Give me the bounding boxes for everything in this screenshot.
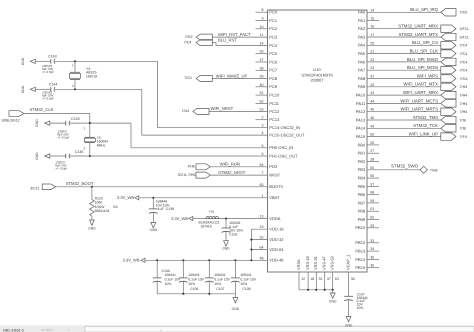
svg-text:7/H4: 7/H4: [460, 102, 468, 106]
svg-text:C109: C109: [162, 269, 170, 273]
svg-text:FB1: FB1: [209, 210, 215, 214]
svg-text:61: 61: [370, 207, 374, 211]
svg-text:PB10: PB10: [355, 225, 366, 230]
svg-text:63: 63: [335, 277, 339, 281]
svg-text:3: 3: [262, 124, 264, 128]
svg-text:43: 43: [370, 91, 374, 95]
svg-text:VSS-47: VSS-47: [322, 255, 327, 270]
svg-text:3.3V_WB: 3.3V_WB: [123, 258, 140, 263]
svg-text:PD2: PD2: [269, 164, 278, 169]
svg-text:VBAT: VBAT: [269, 195, 280, 200]
svg-text:24: 24: [260, 41, 264, 45]
svg-text:17: 17: [370, 33, 374, 37]
svg-text:64: 64: [260, 246, 264, 250]
svg-text:7/C4: 7/C4: [460, 52, 468, 56]
svg-text:8: 8: [262, 8, 264, 12]
svg-text:PB6: PB6: [358, 192, 366, 197]
svg-text:3.3V_WB: 3.3V_WB: [117, 195, 134, 200]
svg-text:10%: 10%: [165, 282, 172, 286]
svg-text:PA6: PA6: [358, 59, 366, 64]
svg-text:7/G2: 7/G2: [185, 35, 193, 39]
svg-text:C106: C106: [190, 287, 198, 291]
svg-text:WIFI_WAKE_UP: WIFI_WAKE_UP: [216, 73, 248, 78]
svg-text:7/H4: 7/H4: [460, 110, 468, 114]
svg-text:WIFI_LINK_UP: WIFI_LINK_UP: [409, 132, 439, 137]
svg-text:+/- 0.5pF: +/- 0.5pF: [57, 136, 69, 140]
svg-text:7/G4: 7/G4: [460, 77, 468, 81]
svg-text:7/H4: 7/H4: [460, 85, 468, 89]
svg-text:C144: C144: [49, 83, 58, 87]
svg-text:BLU_SPI_MISO: BLU_SPI_MISO: [407, 57, 439, 62]
svg-text:23: 23: [370, 66, 374, 70]
svg-text:11: 11: [260, 33, 264, 37]
svg-text:PC2: PC2: [269, 26, 278, 31]
svg-text:3/F11: 3/F11: [460, 27, 469, 31]
svg-text:7/I8: 7/I8: [460, 127, 466, 131]
svg-text:PC3: PC3: [269, 35, 278, 40]
svg-text:PC5: PC5: [269, 51, 278, 56]
svg-text:3/C11,7/H6: 3/C11,7/H6: [178, 173, 196, 177]
svg-text:PB2: PB2: [358, 159, 366, 164]
svg-text:31: 31: [319, 277, 323, 281]
svg-text:VDD-48: VDD-48: [269, 258, 284, 263]
svg-text:10%: 10%: [188, 282, 195, 286]
svg-text:PB3: PB3: [358, 167, 366, 172]
svg-text:U10: U10: [313, 67, 321, 72]
svg-text:C108: C108: [242, 287, 250, 291]
svg-text:59: 59: [370, 199, 374, 203]
svg-text:168441: 168441: [214, 273, 225, 277]
svg-text:GND: GND: [88, 226, 96, 230]
svg-text:PC11: PC11: [269, 101, 279, 106]
svg-text:HB1.3-B01.0: HB1.3-B01.0: [3, 328, 24, 332]
svg-text:1: 1: [83, 126, 85, 130]
svg-text:3/B8,3/G12: 3/B8,3/G12: [2, 118, 20, 122]
svg-text:38: 38: [260, 66, 264, 70]
svg-text:WIFI_RST_FACT: WIFI_RST_FACT: [218, 32, 251, 37]
svg-text:10%: 10%: [357, 306, 364, 310]
svg-text:13: 13: [260, 215, 264, 219]
svg-text:PC4: PC4: [269, 43, 278, 48]
svg-text:3.3V_WB: 3.3V_WB: [171, 216, 188, 221]
svg-text:68691104: 68691104: [95, 209, 110, 213]
svg-text:VSS-63: VSS-63: [330, 255, 335, 270]
svg-text:PC15-OSC32_OUT: PC15-OSC32_OUT: [269, 133, 305, 138]
svg-text:7/G1: 7/G1: [184, 76, 192, 80]
svg-text:7/C4: 7/C4: [184, 40, 192, 44]
svg-text:GND: GND: [35, 152, 39, 160]
svg-text:PA9: PA9: [358, 84, 366, 89]
svg-text:42: 42: [370, 83, 374, 87]
svg-text:8MHz: 8MHz: [97, 143, 106, 147]
svg-text:GND: GND: [150, 228, 158, 232]
svg-text:28: 28: [370, 158, 374, 162]
svg-text:1: 1: [262, 194, 264, 198]
svg-text:33: 33: [370, 239, 374, 243]
svg-text:rev 0.2 a: rev 0.2 a: [41, 328, 53, 332]
svg-text:PA3: PA3: [358, 34, 366, 39]
svg-text:7/C6: 7/C6: [460, 11, 468, 15]
svg-text:WIFI_UART_MCTS: WIFI_UART_MCTS: [400, 98, 438, 103]
svg-text:7/C4: 7/C4: [460, 69, 468, 73]
svg-text:44: 44: [370, 99, 374, 103]
svg-text:PC8: PC8: [269, 76, 278, 81]
svg-text:C143: C143: [48, 55, 57, 59]
svg-text:7/H4: 7/H4: [460, 94, 468, 98]
svg-text:VSS-18: VSS-18: [305, 255, 310, 270]
svg-text:27: 27: [370, 149, 374, 153]
svg-text:VSS-31: VSS-31: [313, 255, 318, 270]
svg-text:187418: 187418: [200, 224, 211, 228]
svg-text:45: 45: [370, 108, 374, 112]
svg-text:PH0-OSC_IN: PH0-OSC_IN: [269, 145, 293, 150]
svg-text:0.1uF 10V: 0.1uF 10V: [165, 278, 181, 282]
svg-text:9: 9: [262, 17, 264, 21]
svg-text:39: 39: [260, 75, 264, 79]
svg-text:WIFI_UART_MTX: WIFI_UART_MTX: [403, 82, 438, 87]
svg-text:STM32_UART_MTX: STM32_UART_MTX: [399, 32, 438, 37]
svg-text:VSSA: VSSA: [296, 259, 301, 270]
svg-text:PC9: PC9: [269, 84, 278, 89]
svg-text:PA12: PA12: [356, 109, 366, 114]
svg-text:+/- 0.5pF: +/- 0.5pF: [55, 166, 67, 170]
svg-text:34: 34: [370, 247, 374, 251]
svg-text:GND: GND: [345, 324, 353, 328]
svg-text:C138: C138: [166, 207, 174, 211]
svg-text:VDD-32: VDD-32: [269, 237, 284, 242]
svg-text:PB5: PB5: [358, 184, 366, 189]
svg-text:47: 47: [327, 277, 331, 281]
svg-text:41: 41: [370, 75, 374, 79]
svg-text:WIFI_NRST: WIFI_NRST: [211, 106, 234, 111]
svg-text:PC14-OSC32_IN: PC14-OSC32_IN: [269, 125, 300, 130]
svg-text:PB0: PB0: [358, 142, 366, 147]
svg-text:57: 57: [370, 182, 374, 186]
svg-text:26: 26: [370, 141, 374, 145]
svg-text:54: 54: [260, 163, 264, 167]
svg-text:168441: 168441: [165, 273, 176, 277]
svg-text:10%: 10%: [240, 282, 247, 286]
svg-text:PB12: PB12: [355, 240, 366, 245]
svg-text:STM32_BOOT: STM32_BOOT: [66, 181, 94, 186]
svg-text:3/F11: 3/F11: [460, 35, 469, 39]
svg-text:22: 22: [370, 58, 374, 62]
svg-text:7/A4: 7/A4: [182, 109, 189, 113]
svg-text:VDDA: VDDA: [269, 216, 280, 221]
svg-text:PB15: PB15: [355, 265, 366, 270]
svg-text:STM32_TMS: STM32_TMS: [413, 115, 438, 120]
svg-text:7/F4: 7/F4: [460, 135, 467, 139]
svg-text:2: 2: [72, 84, 74, 88]
svg-text:PB13: PB13: [355, 249, 366, 254]
svg-text:PA1: PA1: [358, 18, 366, 23]
svg-text:NRST: NRST: [269, 173, 280, 178]
svg-text:GND: GND: [21, 57, 25, 65]
svg-text:GND: GND: [222, 246, 230, 250]
svg-text:WIFI_WPS: WIFI_WPS: [417, 73, 438, 78]
svg-text:203007: 203007: [311, 78, 324, 83]
svg-text:7/I8: 7/I8: [460, 118, 466, 122]
svg-text:GND: GND: [35, 119, 39, 127]
svg-text:0.1uF 10V: 0.1uF 10V: [214, 278, 230, 282]
svg-text:55: 55: [370, 166, 374, 170]
svg-text:C145: C145: [71, 117, 80, 121]
svg-text:WIFI_UART_MRTS: WIFI_UART_MRTS: [400, 107, 438, 112]
svg-text:0.1uF 10V: 0.1uF 10V: [188, 278, 204, 282]
svg-text:BLU_SPI_MOSI: BLU_SPI_MOSI: [407, 65, 438, 70]
svg-text:PA13: PA13: [356, 117, 366, 122]
svg-text:7/H8: 7/H8: [430, 168, 438, 172]
svg-text:5%: 5%: [113, 205, 118, 209]
svg-text:3/C11: 3/C11: [30, 186, 39, 190]
svg-text:10: 10: [260, 25, 264, 29]
svg-text:PB4: PB4: [358, 176, 366, 181]
svg-text:PC6: PC6: [269, 59, 278, 64]
svg-text:BLU_SPI_CS: BLU_SPI_CS: [412, 40, 438, 45]
svg-text:PC10: PC10: [269, 93, 280, 98]
svg-text:2: 2: [83, 147, 85, 151]
svg-text:PC7: PC7: [269, 68, 278, 73]
svg-text:GND: GND: [232, 307, 240, 311]
svg-text:7/C4: 7/C4: [460, 60, 468, 64]
svg-text:168441: 168441: [240, 273, 251, 277]
svg-text:32: 32: [260, 236, 264, 240]
svg-text:PA2: PA2: [358, 26, 366, 31]
svg-text:51: 51: [260, 91, 264, 95]
svg-text:PB8: PB8: [358, 209, 366, 214]
svg-text:53: 53: [260, 107, 264, 111]
svg-text:5: 5: [262, 144, 264, 148]
svg-text:C146: C146: [75, 150, 84, 154]
svg-text:STM32_UART_MRX: STM32_UART_MRX: [398, 24, 438, 29]
svg-text:30: 30: [351, 277, 355, 281]
svg-text:168441: 168441: [188, 273, 199, 277]
svg-text:19: 19: [260, 225, 264, 229]
svg-text:PC1: PC1: [269, 18, 278, 23]
svg-text:58: 58: [370, 191, 374, 195]
svg-text:BLU_SPI_CLK: BLU_SPI_CLK: [410, 49, 439, 54]
svg-text:VDD-19: VDD-19: [269, 227, 284, 232]
svg-text:STM32_CLK: STM32_CLK: [30, 107, 54, 112]
svg-text:GND: GND: [21, 85, 25, 93]
svg-text:PA11: PA11: [356, 101, 366, 106]
svg-text:PA8: PA8: [358, 76, 366, 81]
svg-text:29: 29: [370, 224, 374, 228]
svg-text:+/- 0.5pF: +/- 0.5pF: [42, 96, 54, 100]
svg-text:BLU_SPI_IRQ: BLU_SPI_IRQ: [410, 7, 438, 12]
svg-text:C107: C107: [216, 287, 224, 291]
svg-text:6: 6: [262, 152, 264, 156]
svg-text:7: 7: [262, 171, 264, 175]
svg-text:PA10: PA10: [356, 93, 366, 98]
svg-text:VDD-64: VDD-64: [269, 247, 284, 252]
svg-text:25: 25: [260, 50, 264, 54]
svg-text:7/C4: 7/C4: [460, 44, 468, 48]
svg-text:10%: 10%: [214, 282, 221, 286]
svg-text:16: 16: [370, 25, 374, 29]
svg-text:7/H6: 7/H6: [187, 165, 195, 169]
svg-text:PA4: PA4: [358, 43, 366, 48]
svg-text:20: 20: [370, 41, 374, 45]
svg-text:PB14: PB14: [355, 257, 366, 262]
svg-text:PA14: PA14: [356, 126, 366, 131]
svg-text:35: 35: [370, 255, 374, 259]
svg-text:4: 4: [262, 131, 264, 135]
svg-text:21: 21: [370, 50, 374, 54]
svg-text:STM32_TCK: STM32_TCK: [413, 123, 438, 128]
svg-text:14: 14: [370, 8, 374, 12]
svg-text:1uF: 1uF: [158, 207, 164, 211]
svg-text:PC12: PC12: [269, 109, 280, 114]
svg-text:PA5: PA5: [358, 51, 366, 56]
svg-text:STM32_NRST: STM32_NRST: [218, 170, 246, 175]
svg-text:15: 15: [370, 17, 374, 21]
svg-text:VCAP_1: VCAP_1: [346, 254, 351, 270]
svg-text:189718: 189718: [86, 74, 97, 78]
svg-text:+/- 0.5pF: +/- 0.5pF: [42, 70, 54, 74]
svg-text:62: 62: [370, 216, 374, 220]
svg-text:50: 50: [370, 133, 374, 137]
svg-text:12: 12: [301, 277, 305, 281]
svg-text:+: +: [68, 328, 70, 332]
svg-text:2: 2: [262, 116, 264, 120]
svg-text:PB1: PB1: [358, 151, 366, 156]
svg-text:PA15: PA15: [356, 134, 366, 139]
svg-text:0.1uF 10V: 0.1uF 10V: [240, 278, 256, 282]
svg-text:PB7: PB7: [358, 200, 366, 205]
svg-text:49: 49: [370, 124, 374, 128]
svg-text:PA7: PA7: [358, 68, 366, 73]
svg-text:WIFI_RUN: WIFI_RUN: [220, 161, 240, 166]
svg-text:PB9: PB9: [358, 217, 366, 222]
svg-text:37: 37: [260, 58, 264, 62]
svg-text:40: 40: [260, 83, 264, 87]
svg-text:PA0: PA0: [358, 10, 366, 15]
svg-text:PC0: PC0: [269, 10, 278, 15]
svg-text:46: 46: [370, 116, 374, 120]
svg-text:52: 52: [260, 99, 264, 103]
svg-text:PH1-OSC_OUT: PH1-OSC_OUT: [269, 153, 298, 158]
svg-text:C105: C105: [229, 232, 237, 236]
svg-text:BLU_RST: BLU_RST: [218, 37, 237, 42]
svg-text:56: 56: [370, 174, 374, 178]
svg-text:1: 1: [72, 64, 74, 68]
svg-text:WIFI_UART_MRX: WIFI_UART_MRX: [403, 90, 438, 95]
svg-text:GND: GND: [329, 300, 337, 304]
svg-text:STM32_SWO: STM32_SWO: [391, 164, 419, 169]
svg-text:BOOT0: BOOT0: [269, 184, 283, 189]
svg-text:60: 60: [260, 183, 264, 187]
svg-text:PC13: PC13: [269, 117, 280, 122]
svg-text:18: 18: [310, 277, 314, 281]
svg-text:48: 48: [260, 256, 264, 260]
svg-text:36: 36: [370, 264, 374, 268]
